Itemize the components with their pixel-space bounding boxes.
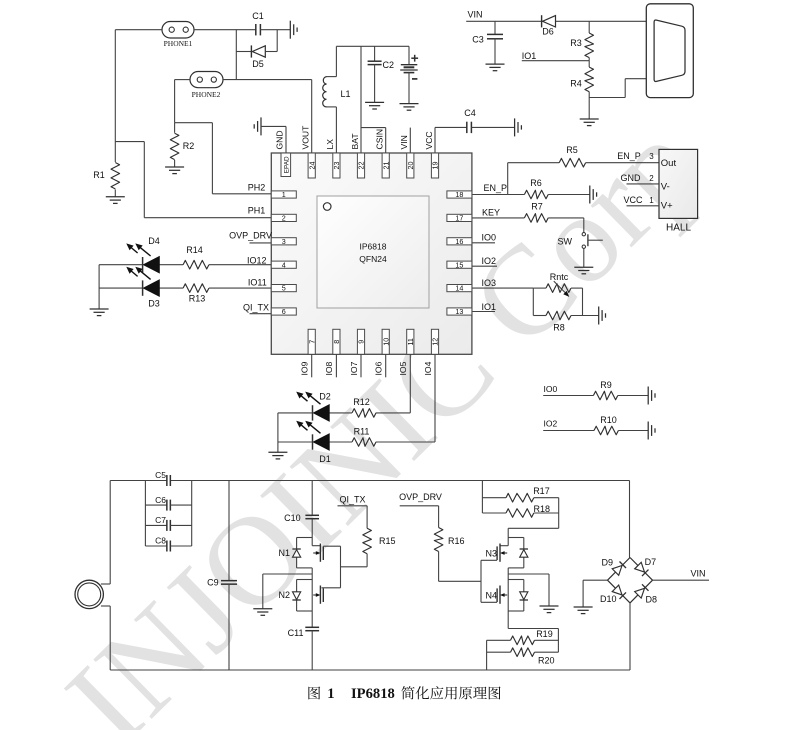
label VCC top pin <box>424 131 434 149</box>
wire GND to HALL <box>621 173 660 184</box>
pin 2 left <box>271 214 296 223</box>
capacitor C8 <box>145 536 191 552</box>
svg-text:IO4: IO4 <box>423 361 433 375</box>
label PH2 pin1 <box>248 182 266 192</box>
svg-text:C10: C10 <box>284 513 301 523</box>
battery cell + <box>400 46 418 103</box>
wire top rail <box>110 480 629 482</box>
svg-text:EPAD: EPAD <box>283 156 290 173</box>
svg-text:VCC: VCC <box>424 131 434 149</box>
svg-text:IO0: IO0 <box>482 232 497 242</box>
svg-text:Out: Out <box>661 158 677 169</box>
svg-text:L1: L1 <box>341 89 351 99</box>
label IO6 bottom pin <box>374 361 384 375</box>
pin 23 top <box>332 153 341 178</box>
wire pin11 to R12 <box>376 354 411 413</box>
ground right of R9 <box>648 387 655 405</box>
svg-text:N3: N3 <box>485 548 497 558</box>
svg-text:QI_TX: QI_TX <box>339 494 365 504</box>
cap ladder left rail <box>144 481 146 547</box>
resistor R1 <box>93 142 119 197</box>
wire VCC to HALL <box>623 195 659 206</box>
wire bridge bottom to rail <box>629 603 631 670</box>
svg-text:N2: N2 <box>278 590 290 600</box>
svg-text:D7: D7 <box>645 557 657 567</box>
label LX top pin <box>325 139 335 150</box>
pin 15 right <box>447 260 472 269</box>
svg-text:VCC: VCC <box>623 195 643 205</box>
pin 12 bottom <box>431 329 440 354</box>
resistor R11 <box>352 427 376 447</box>
pin number 3 of HALL <box>649 152 654 161</box>
wire VIN pin stub <box>409 128 411 153</box>
wire N4 to R19 R20 <box>508 611 558 652</box>
capacitor C11 <box>288 627 319 670</box>
node VIN <box>466 10 646 22</box>
capacitor C2 <box>368 46 394 102</box>
wire CSIN jog <box>361 128 386 153</box>
svg-text:IO12: IO12 <box>247 256 267 266</box>
label QI_TX pin6 stub <box>243 302 271 313</box>
capacitor C1 <box>252 11 290 36</box>
pin 14 right <box>447 284 472 293</box>
LED D3 <box>126 267 183 309</box>
ground right of R8 <box>599 307 606 325</box>
svg-text:VIN: VIN <box>690 569 705 579</box>
resistor R20 <box>487 648 559 666</box>
svg-text:D5: D5 <box>252 59 264 69</box>
svg-text:10: 10 <box>381 338 390 346</box>
capacitor C4 <box>435 108 515 153</box>
transistor N2 <box>278 568 323 628</box>
net IO0 with R9 <box>543 384 593 396</box>
coil TX <box>75 580 103 608</box>
svg-text:1: 1 <box>282 190 286 199</box>
svg-text:C11: C11 <box>288 628 304 638</box>
pin 9 bottom <box>357 329 366 354</box>
ground right of R6 <box>590 186 597 204</box>
wire N3 N4 gate rail <box>480 560 482 602</box>
ground below battery <box>400 104 419 111</box>
svg-text:IO3: IO3 <box>482 278 497 288</box>
wire top rail to bridge <box>629 481 631 558</box>
svg-text:EN_P: EN_P <box>484 183 508 193</box>
wire PHONE2 left to R2 branch <box>175 80 190 123</box>
capacitor C9 <box>207 481 237 671</box>
svg-text:GND: GND <box>621 173 642 183</box>
label IO5 bottom pin <box>398 361 408 375</box>
wire KEY from pin 17 <box>472 208 525 218</box>
label GND EPAD <box>275 130 285 149</box>
IC U1 IP6818 QFN24 body <box>271 153 472 354</box>
wire IO3 to Rntc <box>472 278 533 288</box>
svg-text:EN_P: EN_P <box>617 151 641 161</box>
svg-text:R14: R14 <box>186 245 203 255</box>
label IO12 pin4 <box>247 256 267 266</box>
wire R19 R20 left to bottom rail <box>486 640 488 670</box>
svg-text:IO9: IO9 <box>300 361 310 375</box>
svg-text:R1: R1 <box>93 170 105 180</box>
svg-text:R12: R12 <box>353 397 370 407</box>
svg-text:D4: D4 <box>148 236 160 246</box>
pin 11 bottom <box>406 329 415 354</box>
wire D3 D4 common <box>99 265 143 309</box>
resistor R15 <box>341 528 396 567</box>
svg-text:KEY: KEY <box>482 208 500 218</box>
LED D1 <box>296 421 352 464</box>
resistor R10 <box>594 415 648 435</box>
resistor R7 <box>524 202 583 223</box>
wire pin12 to R11 <box>376 354 435 442</box>
svg-text:R13: R13 <box>189 294 206 304</box>
pin 16 right <box>447 237 472 246</box>
svg-text:R19: R19 <box>536 629 553 639</box>
diode D8 <box>635 584 657 604</box>
svg-text:R8: R8 <box>553 323 565 333</box>
LED D2 <box>296 392 352 422</box>
svg-text:C3: C3 <box>472 35 484 45</box>
svg-text:C7: C7 <box>155 515 166 525</box>
svg-text:R6: R6 <box>530 178 542 188</box>
svg-text:C9: C9 <box>207 578 219 588</box>
label IO11 pin5 <box>248 278 267 288</box>
label EN_P at HALL <box>617 151 641 161</box>
pin 8 bottom <box>332 329 341 354</box>
svg-text:IO2: IO2 <box>482 256 497 266</box>
wire top rail to battery <box>336 45 409 47</box>
svg-text:IO1: IO1 <box>522 51 537 61</box>
svg-text:SW: SW <box>558 237 573 247</box>
pin 17 right <box>447 214 472 223</box>
label OVP_DRV pin3 stub <box>229 230 272 243</box>
svg-text:2: 2 <box>649 174 654 183</box>
svg-text:V+: V+ <box>661 201 673 212</box>
svg-text:R17: R17 <box>533 486 550 496</box>
wire pin9 stub <box>360 354 362 377</box>
pin 13 right <box>447 307 472 316</box>
svg-text:IO8: IO8 <box>324 361 334 375</box>
ground for EPAD <box>254 117 261 135</box>
ground right of C4 <box>515 118 522 136</box>
svg-text:IO1: IO1 <box>482 302 497 312</box>
label VIN top pin <box>399 135 409 149</box>
wire N1 N2 midpoint to ground <box>263 574 312 609</box>
svg-text:V-: V- <box>661 182 670 193</box>
resistor R6 <box>508 178 590 199</box>
svg-text:11: 11 <box>406 338 415 345</box>
svg-text:D6: D6 <box>542 27 554 37</box>
ground below R4 <box>580 119 599 126</box>
svg-text:BAT: BAT <box>350 133 360 150</box>
wire pin8 stub <box>335 354 337 377</box>
diode D9 <box>601 558 626 576</box>
wire pin7 stub <box>311 354 313 377</box>
ground below D3 D4 <box>90 309 109 316</box>
svg-text:D3: D3 <box>148 299 160 309</box>
pin 7 bottom <box>307 329 316 354</box>
svg-text:IP6818: IP6818 <box>351 686 395 702</box>
svg-text:23: 23 <box>332 162 341 170</box>
resistor R16 <box>434 528 481 582</box>
transistor N4 <box>481 568 528 611</box>
wire EN_P from pin 18 <box>472 163 559 195</box>
svg-text:12: 12 <box>431 338 440 346</box>
svg-text:13: 13 <box>455 307 463 316</box>
svg-text:C2: C2 <box>383 60 395 70</box>
svg-text:N1: N1 <box>278 548 290 558</box>
net stub IO2 pin15 <box>472 256 497 266</box>
svg-text:LX: LX <box>325 139 335 150</box>
pin 6 left <box>271 307 296 316</box>
svg-text:GND: GND <box>275 130 285 149</box>
svg-text:6: 6 <box>282 307 286 316</box>
label IO9 bottom pin <box>300 361 310 375</box>
svg-text:D10: D10 <box>600 594 617 604</box>
svg-text:R15: R15 <box>379 536 396 546</box>
diode D5 <box>236 30 277 69</box>
resistor R19 <box>487 629 559 644</box>
svg-text:9: 9 <box>357 340 366 344</box>
svg-text:OVP_DRV: OVP_DRV <box>399 492 442 502</box>
svg-text:IP6818: IP6818 <box>360 242 387 252</box>
wire PHONE1 right / VOUT net <box>194 30 312 153</box>
wire N3 N4 midpoint to ground <box>508 574 549 606</box>
svg-text:IO6: IO6 <box>374 361 384 375</box>
svg-text:20: 20 <box>406 162 415 170</box>
caption 图1 IP6818 简化应用原理图 <box>308 686 500 702</box>
ground below R2 <box>165 167 184 174</box>
wire Rntc parallel R8 <box>533 288 546 315</box>
svg-text:IO5: IO5 <box>398 361 408 375</box>
capacitor C7 <box>145 515 191 531</box>
svg-text:18: 18 <box>455 190 463 199</box>
svg-text:24: 24 <box>307 162 316 170</box>
svg-text:21: 21 <box>381 162 390 170</box>
svg-text:PH2: PH2 <box>248 182 266 192</box>
svg-text:HALL: HALL <box>666 223 691 234</box>
LED D4 <box>126 236 183 273</box>
switch SW <box>558 218 603 267</box>
wire R17 R18 branch <box>482 481 506 514</box>
ground below D1 D2 <box>268 452 287 459</box>
svg-text:5: 5 <box>282 284 286 293</box>
svg-text:22: 22 <box>357 162 366 170</box>
net OVP_DRV to R16 <box>399 492 442 528</box>
svg-text:C4: C4 <box>464 108 476 118</box>
pin 3 left <box>271 237 296 246</box>
ground left of bridge <box>574 607 593 614</box>
connector USB <box>646 4 693 98</box>
svg-text:R4: R4 <box>570 79 582 89</box>
label VOUT top pin <box>301 125 311 150</box>
svg-text:PHONE2: PHONE2 <box>192 90 221 99</box>
pin 24 top <box>307 153 316 178</box>
resistor R8 <box>546 311 599 332</box>
watermark "INJOINIC Corp" <box>40 95 724 730</box>
svg-text:PHONE1: PHONE1 <box>164 39 193 48</box>
net stub IO1 pin13 <box>472 302 496 312</box>
resistor R13 <box>183 284 209 304</box>
diode D10 <box>600 585 626 604</box>
pin 5 left <box>271 284 296 293</box>
label PH1 pin2 <box>248 206 266 216</box>
inductor L1 <box>323 46 351 153</box>
label CSIN top pin <box>375 129 385 150</box>
connector PHONE2 <box>190 72 223 100</box>
pin 20 top <box>406 153 415 178</box>
svg-text:QFN24: QFN24 <box>359 254 387 264</box>
cap ladder right rail <box>191 481 193 547</box>
pin 4 left <box>271 260 296 269</box>
resistor R3 <box>570 21 593 60</box>
wire pin10 stub <box>385 354 387 377</box>
svg-text:19: 19 <box>431 162 440 170</box>
ground right of R10 <box>648 422 655 440</box>
resistor R12 <box>352 397 376 417</box>
thermistor Rntc <box>533 272 582 316</box>
svg-text:Rntc: Rntc <box>550 272 569 282</box>
net IO2 with R10 <box>543 419 594 431</box>
svg-text:C6: C6 <box>155 495 166 505</box>
svg-text:VOUT: VOUT <box>301 125 311 150</box>
ground below SW <box>574 267 593 274</box>
capacitor C5 <box>155 470 170 486</box>
svg-text:R10: R10 <box>600 415 617 425</box>
pin 18 right <box>447 190 472 199</box>
resistor R2 <box>170 123 194 167</box>
svg-text:IO0: IO0 <box>544 384 558 394</box>
svg-text:15: 15 <box>455 260 463 269</box>
svg-text:D8: D8 <box>646 595 658 605</box>
svg-text:R2: R2 <box>183 141 195 151</box>
label BAT top pin <box>350 133 360 150</box>
svg-text:D9: D9 <box>601 558 613 568</box>
ground at N3 N4 midpoint <box>540 606 559 613</box>
svg-text:1: 1 <box>649 196 654 205</box>
wire R13 to pin5 <box>209 287 271 289</box>
svg-text:D2: D2 <box>319 392 331 402</box>
label IO4 bottom pin <box>423 361 433 375</box>
svg-text:VIN: VIN <box>467 10 482 20</box>
wire PHONE1 left to R1 branch <box>115 30 162 142</box>
svg-text:3: 3 <box>282 237 286 246</box>
wire left rail <box>101 481 110 671</box>
ground at N2 gate <box>253 609 272 616</box>
node IO1 to divider <box>522 51 589 61</box>
svg-text:D1: D1 <box>319 454 331 464</box>
wire divider to connector <box>589 79 646 98</box>
transistor N1 <box>278 519 340 588</box>
net QI_TX to R15 <box>338 494 368 528</box>
capacitor C10 <box>284 481 319 523</box>
svg-text:R16: R16 <box>448 536 465 546</box>
wire PH2 net <box>175 123 272 194</box>
pin 10 bottom <box>381 329 390 354</box>
resistor R5 <box>559 145 659 167</box>
pin 21 top <box>381 153 390 178</box>
diode D6 <box>542 15 556 36</box>
svg-text:VIN: VIN <box>399 135 409 149</box>
svg-text:C8: C8 <box>155 536 166 546</box>
svg-text:4: 4 <box>282 260 286 269</box>
wire R14 to pin4 <box>209 264 271 266</box>
svg-text:3: 3 <box>649 152 654 161</box>
pin 22 top <box>357 153 366 178</box>
svg-text:14: 14 <box>455 284 463 293</box>
wire bottom rail <box>110 669 630 671</box>
wire EPAD to ground <box>261 126 286 153</box>
wire divider to ground <box>588 98 590 120</box>
wire BAT net <box>360 46 362 153</box>
svg-text:OVP_DRV: OVP_DRV <box>229 230 272 240</box>
node VIN output <box>653 569 710 581</box>
capacitor C6 <box>145 495 191 511</box>
ground below C3 <box>486 64 505 71</box>
ground right of C1 <box>290 21 297 39</box>
ground below C2 <box>365 102 384 109</box>
pin EPAD <box>281 153 291 177</box>
resistor R9 <box>593 380 648 400</box>
capacitor C3 <box>472 21 503 64</box>
resistor R18 <box>506 504 550 517</box>
svg-text:CSIN: CSIN <box>375 129 385 150</box>
svg-text:R7: R7 <box>531 202 543 212</box>
pin 19 top <box>431 153 440 178</box>
svg-text:8: 8 <box>332 340 341 344</box>
svg-text:R20: R20 <box>538 656 555 666</box>
wire D1 D2 common <box>278 413 313 452</box>
pin 1 left <box>271 190 296 199</box>
resistor R14 <box>183 245 209 269</box>
svg-text:IO2: IO2 <box>544 419 558 429</box>
svg-text:C1: C1 <box>252 11 264 21</box>
svg-text:1: 1 <box>327 686 334 702</box>
resistor R4 <box>570 61 593 98</box>
wire PH1 net <box>115 142 271 218</box>
svg-text:17: 17 <box>455 214 463 223</box>
diode D7 <box>635 557 656 576</box>
net stub IO0 pin16 <box>472 232 496 242</box>
transistor N3 <box>481 538 528 568</box>
svg-text:QI_TX: QI_TX <box>243 302 269 312</box>
label IO8 bottom pin <box>324 361 334 375</box>
svg-text:IO7: IO7 <box>349 361 359 375</box>
resistor R17 <box>506 486 550 502</box>
svg-text:R5: R5 <box>566 145 578 155</box>
svg-text:PH1: PH1 <box>248 206 266 216</box>
wire bridge frame <box>608 558 653 603</box>
label IO7 bottom pin <box>349 361 359 375</box>
connector PHONE1 <box>162 22 194 49</box>
svg-text:7: 7 <box>307 340 316 344</box>
wire R17 R18 to N3 drain <box>508 498 559 546</box>
svg-text:R3: R3 <box>570 38 582 48</box>
svg-text:2: 2 <box>282 214 286 223</box>
ground below R1 <box>106 197 125 204</box>
svg-text:16: 16 <box>455 237 463 246</box>
svg-text:IO11: IO11 <box>248 278 267 288</box>
connector HALL <box>659 149 698 233</box>
svg-text:C5: C5 <box>155 470 166 480</box>
svg-text:R11: R11 <box>354 427 370 437</box>
wire bridge left to ground <box>583 580 607 607</box>
svg-text:R9: R9 <box>600 380 612 390</box>
svg-text:N4: N4 <box>485 590 497 600</box>
